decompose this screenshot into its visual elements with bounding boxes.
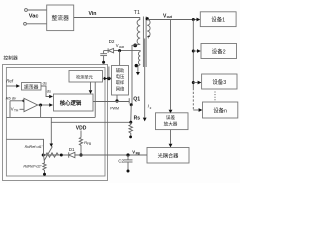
potentiometer Rd xyxy=(46,153,59,157)
svg-text:PWM: PWM xyxy=(110,107,119,111)
svg-text:设备2: 设备2 xyxy=(212,47,226,55)
wire CS sense rail xyxy=(51,121,131,123)
wire primary bottom to Q1 drain xyxy=(132,44,140,97)
wire control to pot wiper xyxy=(50,117,52,143)
node source junction dot xyxy=(129,121,132,124)
svg-text:设备1: 设备1 xyxy=(211,16,225,24)
wire Vin: rectifier to transformer primary xyxy=(74,18,140,20)
transformer secondary winding xyxy=(147,20,150,37)
wire AC bottom xyxy=(27,23,47,25)
node bus dot at device2 branch xyxy=(192,50,195,53)
wire VDD down xyxy=(80,131,82,138)
wire arrow into core logic xyxy=(49,103,53,107)
node bus dot at device3 branch xyxy=(192,81,195,84)
node Rs bottom terminal dot xyxy=(129,136,132,139)
transformer aux winding xyxy=(138,52,140,65)
svg-text:ds: ds xyxy=(43,80,47,85)
svg-text:+: + xyxy=(147,35,151,41)
box sampling network 辅助电压取样网络 xyxy=(112,66,129,96)
rectifier box 整流器 xyxy=(47,5,74,31)
ellipsis between device3 and device n xyxy=(214,92,216,102)
box oscillator 振荡器 xyxy=(22,83,42,91)
svg-text:ds: ds xyxy=(47,88,51,93)
svg-text:D1: D1 xyxy=(69,147,75,152)
node pot left dot xyxy=(42,154,45,157)
capacitor VDD bypass xyxy=(103,51,105,54)
svg-text:电压: 电压 xyxy=(116,73,125,80)
terminal top-left AC input 1 xyxy=(25,9,28,12)
svg-text:设备n: 设备n xyxy=(213,107,227,115)
svg-text:放大器: 放大器 xyxy=(164,121,178,128)
svg-text:振荡器: 振荡器 xyxy=(24,84,39,91)
svg-text:C2: C2 xyxy=(118,159,124,164)
node secondary polarity dot xyxy=(146,17,149,20)
svg-text:Ref: Ref xyxy=(6,79,14,84)
node primary polarity dot xyxy=(133,44,137,48)
wire secondary return with Is arrow xyxy=(144,39,146,118)
node comparator input dot xyxy=(22,99,25,102)
diode D1 xyxy=(69,152,75,157)
node dot on controller border xyxy=(107,77,110,80)
node dot on gate line xyxy=(115,99,118,102)
ground aux (small arrow) xyxy=(136,72,140,75)
capacitor C2 xyxy=(127,155,129,160)
svg-text:FB: FB xyxy=(136,152,141,156)
svg-text:aux: aux xyxy=(119,45,125,49)
wire feedback Vout to error amp xyxy=(170,20,172,110)
node VDD/VFB junction dot xyxy=(79,153,82,156)
svg-text:s: s xyxy=(150,106,152,110)
svg-text:Rb dv: Rb dv xyxy=(6,95,17,100)
svg-text:光耦合器: 光耦合器 xyxy=(158,152,180,160)
wire arrow detection to core logic top xyxy=(90,82,92,90)
svg-text:设备3: 设备3 xyxy=(212,78,226,86)
node Rd2 terminal dot xyxy=(43,173,46,176)
resistor Rd2 branch xyxy=(43,155,46,173)
box core logic 核心逻辑 xyxy=(54,94,94,111)
svg-text:核心逻辑: 核心逻辑 xyxy=(60,99,82,107)
svg-text:Vin: Vin xyxy=(89,11,97,17)
wire AC top xyxy=(28,9,47,11)
node comparator output dot xyxy=(39,104,42,107)
node VFB junction dot at C2 xyxy=(126,153,129,156)
wire arrow branch to device n xyxy=(193,109,198,111)
svg-text:T1: T1 xyxy=(134,10,140,16)
device box 设备n xyxy=(203,102,238,118)
box detection unit 检测单元 xyxy=(69,71,103,83)
box error amplifier 误差放大器 xyxy=(156,113,189,130)
svg-text:Q1: Q1 xyxy=(133,96,140,102)
wire Vout rail xyxy=(147,19,197,21)
wire Vaux rail xyxy=(104,51,141,52)
svg-text:辅助: 辅助 xyxy=(116,67,125,74)
svg-text:FB: FB xyxy=(87,142,91,146)
svg-text:out: out xyxy=(167,15,173,19)
potentiometer diagonal arrow xyxy=(44,147,52,161)
wire loop comparator output feedback xyxy=(40,105,42,117)
node VDD pin dot xyxy=(102,61,105,64)
wire comparator upper input xyxy=(10,100,24,102)
svg-text:检测单元: 检测单元 xyxy=(76,74,93,81)
wire arrow into device1 xyxy=(197,18,201,22)
node aux polarity dot xyxy=(135,64,138,67)
controller outer box xyxy=(3,65,108,181)
node junction dot Vout/bus xyxy=(192,18,195,21)
wire aux bottom lead xyxy=(138,65,140,73)
wire device bus vertical dashed continuation xyxy=(192,88,194,110)
wire error amp to optocoupler xyxy=(170,130,172,144)
node Vaux junction dot xyxy=(118,49,121,52)
wire detection unit to sampling network xyxy=(103,78,112,80)
box optocoupler 光耦合器 xyxy=(147,148,189,164)
svg-text:RdRef=d2': RdRef=d2' xyxy=(23,165,41,169)
svg-text:整流器: 整流器 xyxy=(51,14,69,22)
svg-text:Rs: Rs xyxy=(134,115,141,121)
wire VFB rail xyxy=(43,154,147,156)
svg-text:TH: TH xyxy=(14,108,19,112)
wire Vaux down to sampling box xyxy=(119,51,121,66)
device box 设备1 xyxy=(200,12,236,27)
wire comparator lower input xyxy=(20,108,25,110)
resistor RFB xyxy=(79,138,82,156)
wire device bus vertical solid xyxy=(192,20,194,89)
wire sampling box down to gate line xyxy=(116,95,118,100)
wire comparator output xyxy=(38,104,50,106)
svg-text:网络: 网络 xyxy=(116,85,125,92)
terminal AC input 2 xyxy=(24,22,27,25)
resistor Rs xyxy=(129,122,133,136)
node C2 ground terminal dot xyxy=(127,170,130,173)
svg-text:控制器: 控制器 xyxy=(3,55,18,62)
transformer core xyxy=(142,17,144,68)
wire oscillator to core logic xyxy=(41,86,49,97)
wire Q1 source down xyxy=(130,105,132,123)
op-amp comparator xyxy=(24,98,38,111)
transistor Q1 mosfet xyxy=(128,98,130,103)
wire core logic bottom right drop xyxy=(94,82,96,117)
wire Ref arrow into oscillator xyxy=(6,85,16,87)
wire left feed to pot xyxy=(6,139,43,155)
node pot right dot xyxy=(60,154,63,157)
svg-text:取样: 取样 xyxy=(116,79,125,86)
wire arrow branch to device2 xyxy=(193,50,197,52)
wire gate drive PWM xyxy=(93,101,129,103)
device box 设备2 xyxy=(201,44,237,59)
svg-text:误差: 误差 xyxy=(166,114,176,121)
svg-text:D2: D2 xyxy=(109,39,115,44)
controller inner box xyxy=(6,68,105,177)
transformer primary winding xyxy=(137,20,140,45)
device box 设备3 xyxy=(202,74,237,89)
wire arrow branch to device3 xyxy=(193,82,197,84)
diode D2 xyxy=(108,48,113,52)
svg-text:Vac: Vac xyxy=(29,13,39,19)
wire dot up to border xyxy=(108,67,110,79)
svg-text:RdRef=d1': RdRef=d1' xyxy=(25,145,43,149)
